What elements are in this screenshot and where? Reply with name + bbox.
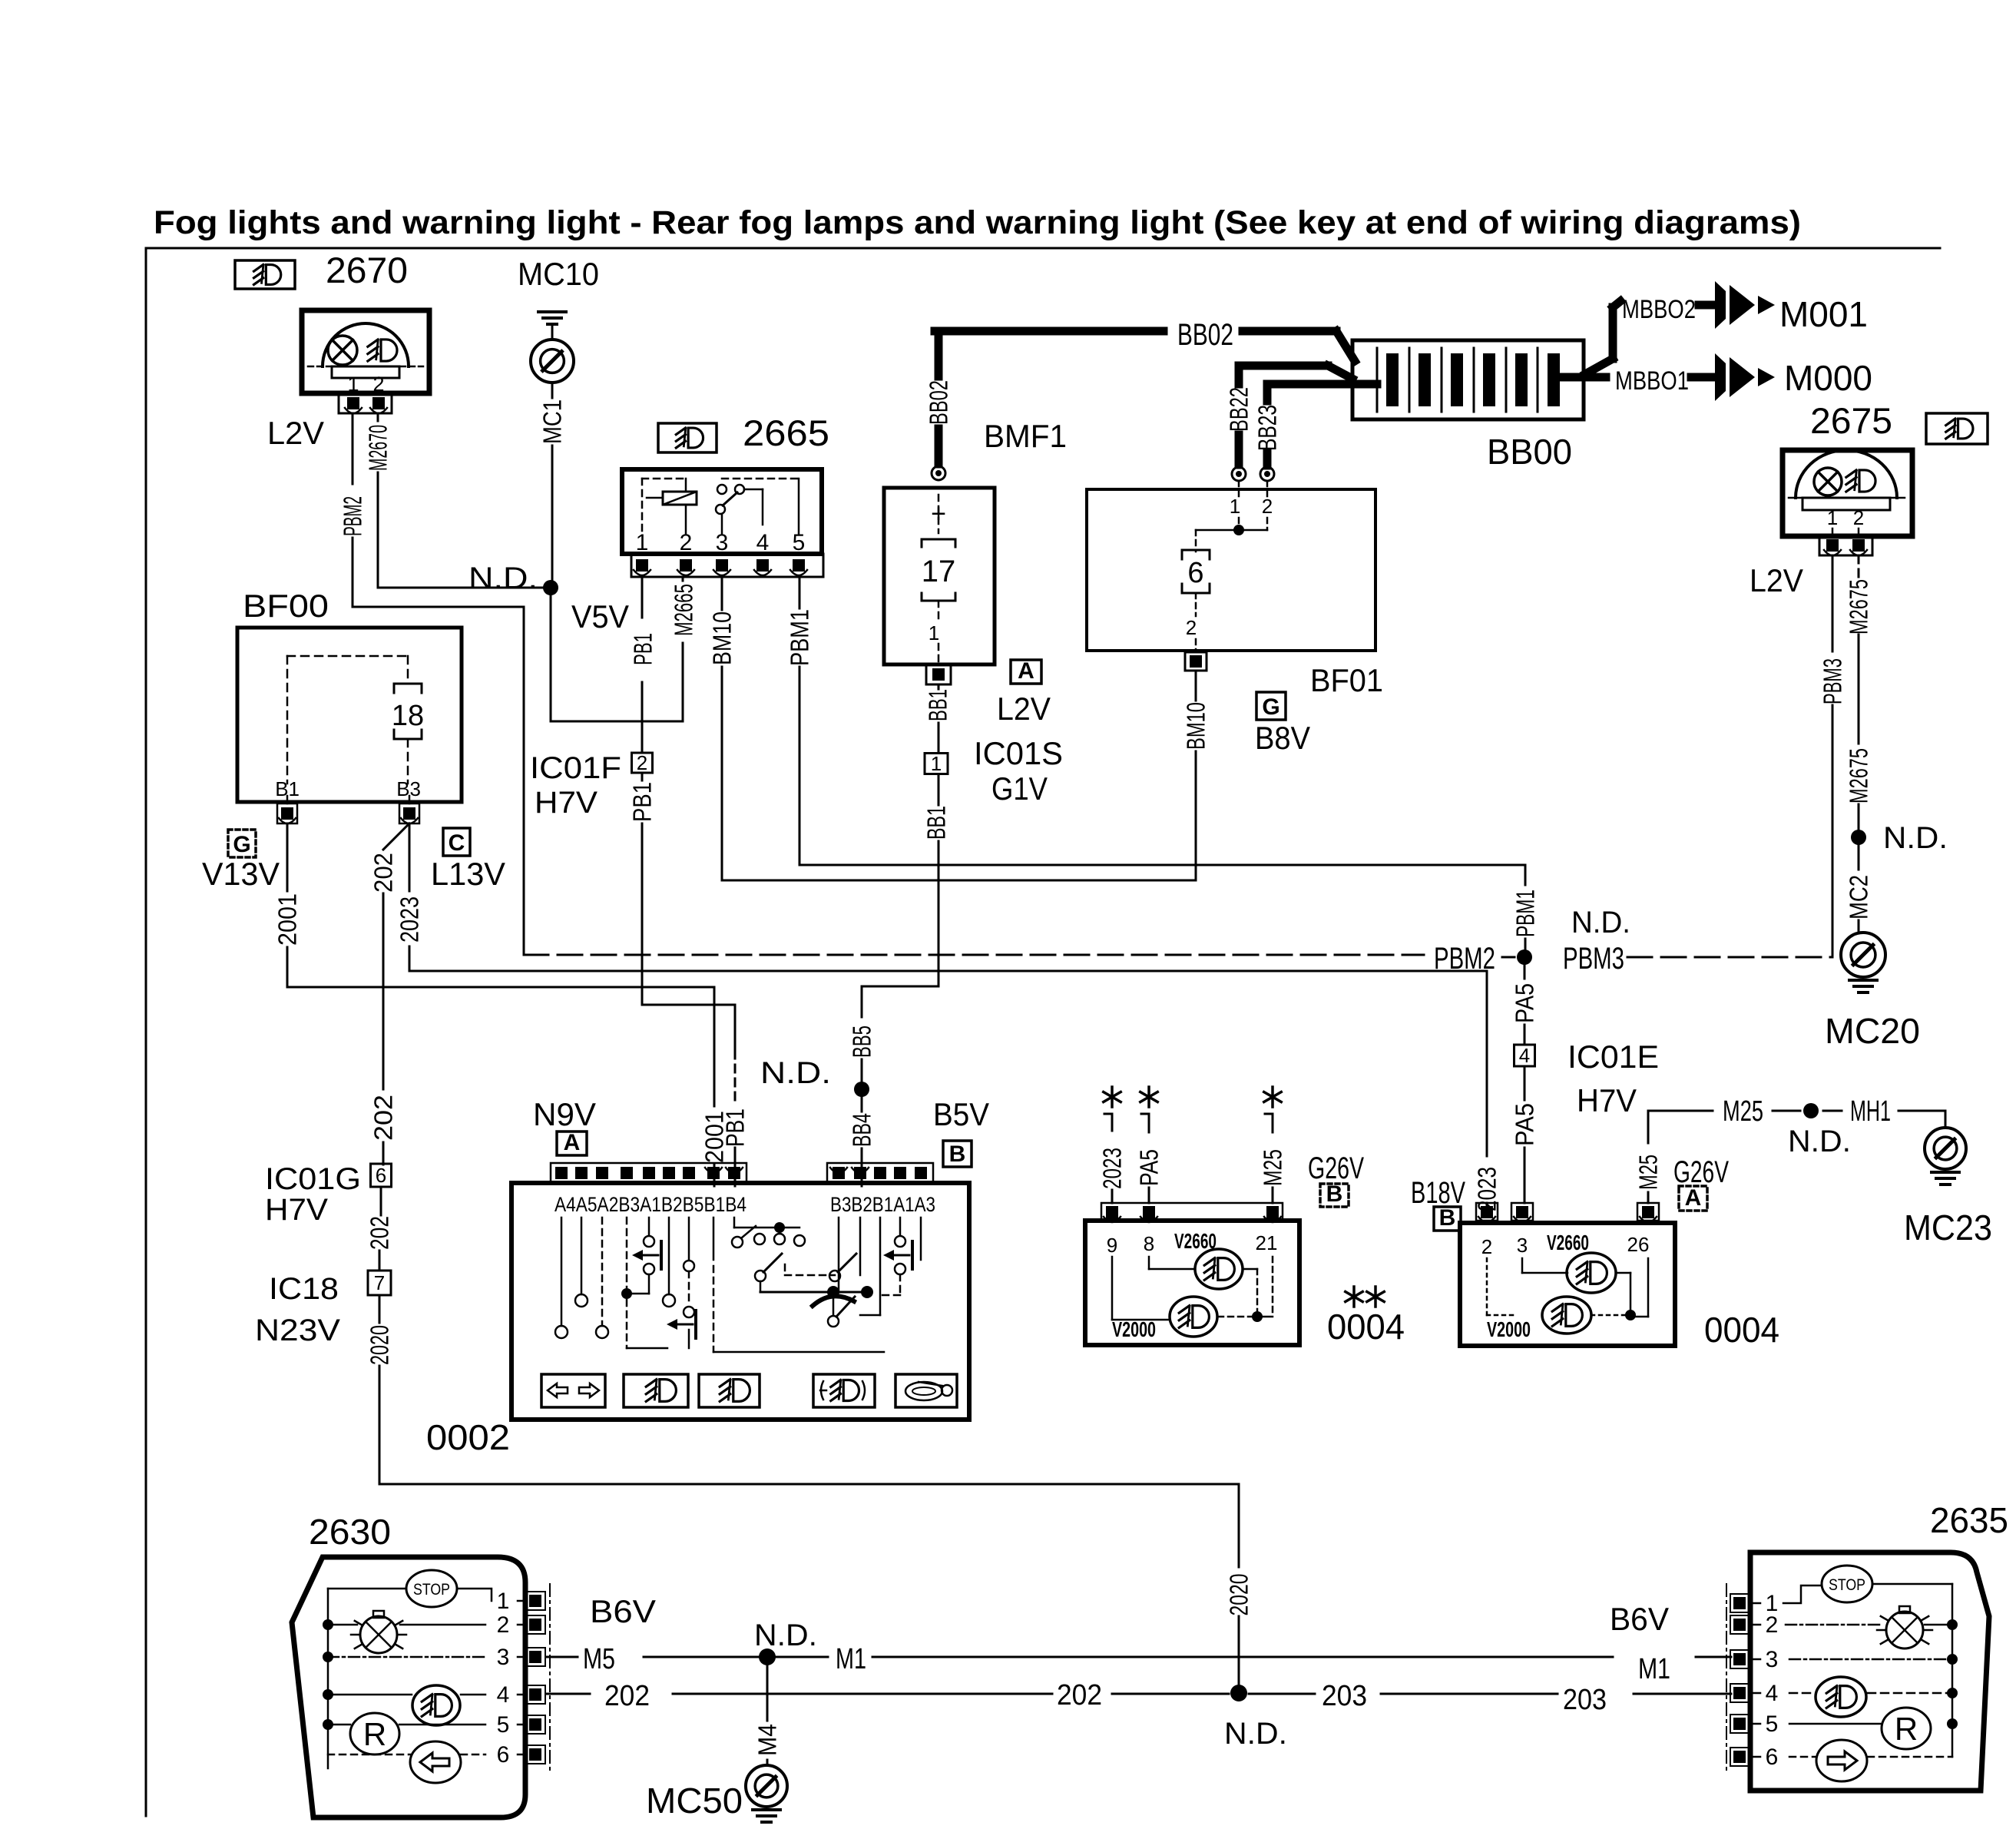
svg-text:B8V: B8V: [1255, 720, 1310, 756]
svg-text:M1: M1: [836, 1643, 866, 1675]
svg-text:MC23: MC23: [1904, 1208, 1992, 1247]
svg-text:4: 4: [1766, 1681, 1779, 1706]
svg-text:MBBO2: MBBO2: [1622, 295, 1696, 324]
svg-text:2001: 2001: [273, 893, 302, 946]
svg-text:V5V: V5V: [571, 598, 629, 635]
svg-text:B: B: [1326, 1181, 1343, 1207]
svg-text:Fog lights and warning light -: Fog lights and warning light - Rear fog …: [154, 204, 1801, 241]
svg-text:A: A: [1685, 1185, 1702, 1211]
svg-text:PBM2: PBM2: [1434, 942, 1495, 976]
svg-text:B3B2B1A1A3: B3B2B1A1A3: [830, 1193, 935, 1216]
svg-text:3: 3: [1766, 1647, 1779, 1672]
svg-text:M25: M25: [1723, 1095, 1763, 1128]
svg-text:6: 6: [1766, 1745, 1779, 1770]
svg-text:M1: M1: [1638, 1653, 1670, 1685]
svg-text:2020: 2020: [366, 1325, 394, 1365]
svg-text:PBM1: PBM1: [1511, 890, 1540, 937]
svg-text:G: G: [233, 832, 250, 857]
svg-text:2675: 2675: [1810, 400, 1892, 441]
svg-text:MC1: MC1: [538, 399, 567, 444]
svg-text:4: 4: [497, 1682, 510, 1708]
svg-text:203: 203: [1322, 1680, 1367, 1712]
svg-text:N.D.: N.D.: [468, 562, 538, 595]
svg-text:BM10: BM10: [1182, 702, 1210, 750]
svg-text:M5: M5: [583, 1643, 615, 1675]
svg-text:MC10: MC10: [518, 256, 599, 292]
svg-text:M2675: M2675: [1845, 748, 1873, 804]
svg-text:17: 17: [922, 555, 956, 588]
svg-text:8: 8: [1144, 1232, 1154, 1255]
svg-text:B: B: [1439, 1205, 1456, 1231]
svg-text:202: 202: [1057, 1679, 1102, 1711]
svg-text:0004: 0004: [1327, 1307, 1405, 1347]
svg-text:L2V: L2V: [1750, 562, 1803, 598]
svg-text:N.D.: N.D.: [754, 1619, 817, 1652]
svg-text:IC01E: IC01E: [1567, 1039, 1659, 1075]
svg-text:M2670: M2670: [364, 425, 392, 471]
svg-text:2: 2: [497, 1612, 510, 1638]
svg-text:2: 2: [1186, 616, 1197, 639]
svg-text:N.D.: N.D.: [1788, 1125, 1851, 1158]
svg-text:A: A: [1018, 658, 1034, 684]
svg-text:5: 5: [497, 1712, 510, 1738]
svg-text:BB1: BB1: [922, 806, 951, 840]
svg-text:2635: 2635: [1930, 1500, 2008, 1540]
svg-text:B6V: B6V: [1610, 1601, 1669, 1637]
svg-text:M2665: M2665: [670, 584, 698, 636]
svg-text:V13V: V13V: [202, 856, 280, 892]
svg-text:M001: M001: [1779, 294, 1868, 334]
svg-text:BB02: BB02: [1177, 318, 1233, 352]
svg-text:PBM1: PBM1: [786, 609, 814, 666]
svg-text:3: 3: [716, 530, 729, 555]
svg-text:26: 26: [1627, 1233, 1650, 1256]
svg-text:B6V: B6V: [590, 1593, 656, 1629]
svg-text:6: 6: [1187, 557, 1203, 589]
svg-text:1: 1: [636, 530, 649, 555]
svg-text:0004: 0004: [1704, 1310, 1779, 1350]
svg-text:V2000: V2000: [1112, 1317, 1156, 1341]
svg-text:IC01S: IC01S: [974, 735, 1063, 771]
svg-text:N23V: N23V: [255, 1314, 340, 1347]
svg-text:N.D.: N.D.: [1224, 1717, 1287, 1751]
svg-text:L13V: L13V: [431, 856, 505, 892]
svg-text:1: 1: [929, 621, 939, 644]
svg-text:G1V: G1V: [991, 770, 1048, 807]
svg-text:N.D.: N.D.: [1571, 906, 1630, 939]
svg-text:B5V: B5V: [933, 1096, 989, 1132]
svg-text:BB22: BB22: [1225, 387, 1253, 432]
svg-text:MC50: MC50: [646, 1781, 743, 1821]
svg-text:6: 6: [376, 1164, 386, 1187]
svg-text:202: 202: [369, 1095, 398, 1141]
svg-text:B: B: [949, 1141, 966, 1167]
svg-text:2023: 2023: [1098, 1148, 1127, 1189]
svg-text:BMF1: BMF1: [984, 418, 1067, 454]
svg-text:PB1: PB1: [628, 782, 657, 822]
svg-text:MH1: MH1: [1850, 1095, 1891, 1128]
svg-text:V2000: V2000: [1487, 1317, 1531, 1341]
svg-text:H7V: H7V: [535, 786, 598, 820]
svg-text:BF00: BF00: [243, 588, 329, 624]
svg-text:2: 2: [1853, 506, 1864, 529]
svg-text:N9V: N9V: [533, 1096, 596, 1132]
svg-text:18: 18: [392, 700, 424, 732]
svg-text:1: 1: [497, 1589, 510, 1614]
svg-text:STOP: STOP: [1829, 1576, 1865, 1594]
svg-text:PBM3: PBM3: [1563, 942, 1624, 976]
svg-text:MBBO1: MBBO1: [1615, 366, 1689, 396]
svg-text:2: 2: [1481, 1235, 1492, 1258]
svg-text:M4: M4: [753, 1724, 782, 1756]
svg-text:5: 5: [1766, 1711, 1779, 1737]
svg-text:2: 2: [680, 530, 693, 555]
svg-text:203: 203: [1563, 1684, 1607, 1716]
svg-text:G26V: G26V: [1673, 1155, 1729, 1189]
svg-text:G: G: [1262, 694, 1279, 720]
svg-text:PBM2: PBM2: [339, 496, 367, 536]
svg-text:PB1: PB1: [629, 633, 657, 665]
svg-text:202: 202: [604, 1680, 650, 1712]
svg-text:BB1: BB1: [924, 689, 952, 721]
svg-text:L2V: L2V: [997, 691, 1051, 727]
svg-text:L2V: L2V: [267, 415, 324, 451]
svg-text:H7V: H7V: [265, 1193, 328, 1227]
svg-text:2023: 2023: [396, 896, 424, 943]
svg-text:BM10: BM10: [708, 611, 737, 665]
svg-text:G26V: G26V: [1308, 1151, 1364, 1185]
svg-text:2020: 2020: [1225, 1574, 1253, 1616]
svg-text:N.D.: N.D.: [760, 1056, 831, 1090]
svg-text:M2675: M2675: [1845, 579, 1873, 635]
svg-text:6: 6: [497, 1742, 510, 1768]
svg-text:BB00: BB00: [1487, 432, 1572, 472]
svg-text:1: 1: [1230, 495, 1240, 518]
svg-text:BB4: BB4: [848, 1113, 876, 1147]
svg-text:5: 5: [793, 530, 806, 555]
svg-text:M000: M000: [1784, 358, 1872, 398]
svg-text:PA5: PA5: [1511, 1103, 1539, 1146]
svg-text:IC18: IC18: [269, 1272, 339, 1306]
svg-text:3: 3: [1517, 1234, 1528, 1257]
svg-text:B18V: B18V: [1411, 1176, 1465, 1210]
svg-text:2630: 2630: [309, 1512, 391, 1552]
svg-text:PA5: PA5: [1135, 1149, 1164, 1186]
svg-text:H7V: H7V: [1577, 1082, 1637, 1118]
svg-text:A: A: [564, 1130, 581, 1155]
svg-text:21: 21: [1256, 1231, 1278, 1254]
svg-text:BF01: BF01: [1310, 662, 1383, 698]
svg-text:BB23: BB23: [1253, 405, 1282, 451]
svg-text:1: 1: [931, 752, 942, 775]
svg-text:IC01F: IC01F: [530, 751, 621, 785]
svg-text:9: 9: [1107, 1234, 1117, 1257]
svg-text:C: C: [449, 830, 465, 856]
svg-text:7: 7: [374, 1271, 385, 1294]
svg-text:1: 1: [1827, 506, 1838, 529]
svg-text:202: 202: [369, 853, 398, 893]
svg-text:STOP: STOP: [413, 1581, 450, 1599]
svg-text:N.D.: N.D.: [1883, 821, 1948, 855]
svg-text:R: R: [363, 1716, 386, 1752]
svg-text:2: 2: [1262, 495, 1273, 518]
svg-text:2665: 2665: [743, 413, 829, 453]
svg-text:2: 2: [637, 751, 647, 774]
svg-text:BB5: BB5: [848, 1025, 876, 1058]
svg-text:BB02: BB02: [925, 380, 953, 425]
svg-text:PA5: PA5: [1511, 983, 1539, 1023]
svg-text:R: R: [1895, 1711, 1918, 1747]
svg-text:M25: M25: [1634, 1155, 1663, 1190]
svg-text:PBM3: PBM3: [1819, 658, 1847, 704]
svg-text:PB1: PB1: [721, 1108, 750, 1147]
svg-text:V2660: V2660: [1547, 1231, 1589, 1254]
svg-text:202: 202: [366, 1216, 394, 1250]
svg-text:IC01G: IC01G: [265, 1162, 361, 1196]
svg-text:3: 3: [497, 1645, 510, 1670]
svg-text:2670: 2670: [326, 250, 408, 290]
svg-text:4: 4: [1519, 1044, 1530, 1067]
svg-text:MC2: MC2: [1845, 875, 1873, 919]
svg-text:+: +: [931, 499, 946, 528]
svg-text:0002: 0002: [426, 1417, 510, 1457]
svg-text:MC20: MC20: [1825, 1011, 1920, 1051]
svg-text:A4A5A2B3A1B2B5B1B4: A4A5A2B3A1B2B5B1B4: [554, 1193, 746, 1216]
svg-text:M25: M25: [1259, 1149, 1287, 1186]
svg-text:4: 4: [756, 530, 770, 555]
svg-text:2: 2: [1766, 1612, 1779, 1638]
